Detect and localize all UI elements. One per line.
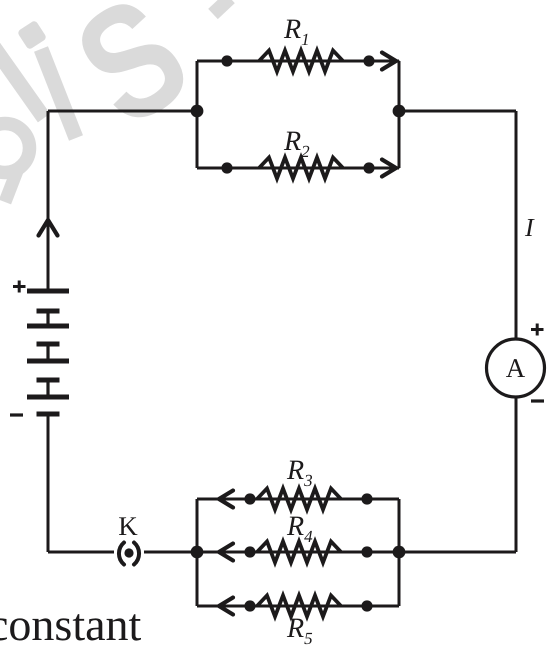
wire: R3 branch — [197, 498, 399, 501]
arrow: left wire current (up) — [39, 220, 58, 236]
node: R2 left dot — [221, 162, 232, 173]
wire: top-left horizontal — [48, 110, 197, 113]
battery - terminal label — [10, 413, 23, 416]
node: R5 right dot — [361, 600, 372, 611]
arrow: R3 branch current (left) — [219, 491, 233, 508]
battery B1 — [27, 291, 69, 414]
wire: R5 branch — [197, 605, 399, 608]
wire: bottom-left horizontal to key — [48, 551, 114, 554]
wire: R4 branch — [197, 551, 399, 554]
svg-text:I: I — [524, 213, 535, 242]
arrow: R1 branch current (right) — [382, 53, 396, 70]
wire: key to bottom junction — [144, 551, 197, 554]
node: R4 right dot — [361, 546, 372, 557]
arrow: R4 branch current (left) — [219, 544, 233, 561]
node: R1 left dot — [221, 55, 232, 66]
resistor R5 — [257, 596, 341, 617]
key K — [119, 543, 139, 565]
resistor R1 — [259, 51, 343, 72]
svg-text:R5: R5 — [286, 613, 313, 648]
arrow: R5 branch current (left) — [219, 598, 233, 615]
svg-text:A: A — [506, 353, 526, 383]
node: R5 left dot — [244, 600, 255, 611]
node: R2 right dot — [363, 162, 374, 173]
wire: right vertical lower (from ammeter) — [515, 397, 518, 552]
svg-text:constant: constant — [0, 599, 142, 648]
svg-text:R4: R4 — [286, 511, 313, 546]
svg-text:R2: R2 — [283, 126, 310, 161]
wire: R2 branch — [197, 167, 399, 170]
node: top block right junction — [393, 105, 406, 118]
wire: top-right horizontal — [399, 110, 516, 113]
node: R3 left dot — [244, 493, 255, 504]
svg-text:K: K — [118, 511, 138, 541]
arrow: R2 branch current (right) — [382, 160, 396, 177]
node: R1 right dot — [363, 55, 374, 66]
node: R3 right dot — [361, 493, 372, 504]
resistor R4 — [257, 542, 341, 563]
ammeter + label — [531, 324, 544, 336]
node: top block left junction — [191, 105, 204, 118]
wire: top block left rail — [196, 61, 199, 168]
wire: bottom block right rail — [398, 499, 401, 606]
resistor R3 — [257, 489, 341, 510]
svg-text:R3: R3 — [286, 455, 313, 490]
wire: right vertical upper (to ammeter) — [515, 111, 518, 340]
wire: top block right rail — [398, 61, 401, 168]
watermark — [0, 0, 230, 202]
node: R4 left dot — [244, 546, 255, 557]
node: bottom block left junction — [191, 546, 204, 559]
ammeter - label — [531, 399, 544, 402]
ammeter A — [487, 339, 545, 397]
resistor R2 — [259, 158, 343, 179]
wire: R1 branch — [197, 60, 399, 63]
svg-text:R1: R1 — [283, 14, 310, 49]
node: bottom block right junction — [393, 546, 406, 559]
wire: bottom block left rail — [196, 499, 199, 606]
wire: bottom-right horizontal — [399, 551, 516, 554]
wire: left vertical lower (battery bottom lead) — [47, 414, 50, 552]
wire: left vertical upper (battery top lead) — [47, 111, 50, 289]
battery + terminal label — [13, 281, 26, 293]
